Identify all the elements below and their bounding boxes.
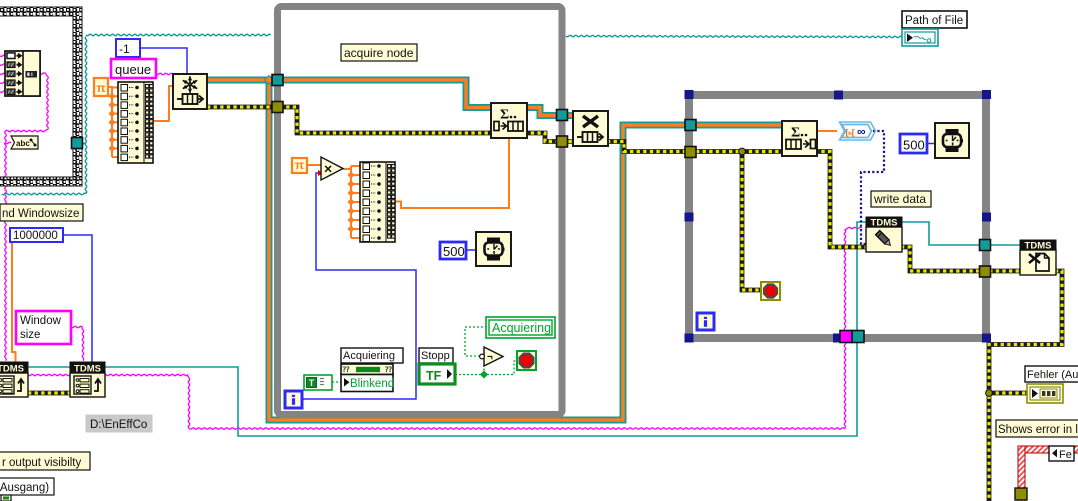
- svg-text:acquire node: acquire node: [344, 46, 414, 60]
- svg-text:Acquiering: Acquiering: [343, 350, 395, 362]
- svg-text:queue: queue: [115, 62, 151, 77]
- svg-text:1000000: 1000000: [13, 230, 58, 242]
- svg-text:-1: -1: [119, 42, 130, 56]
- svg-text:500: 500: [443, 244, 465, 259]
- svg-text:r output visibilty: r output visibilty: [2, 457, 82, 469]
- svg-text:Path of File: Path of File: [905, 15, 963, 27]
- svg-text:D:\EnEffCo: D:\EnEffCo: [90, 419, 147, 431]
- svg-text:Blinkend: Blinkend: [350, 378, 394, 390]
- svg-text:Window: Window: [20, 315, 62, 327]
- svg-text:[ₕ[: [ₕ[: [846, 127, 855, 137]
- svg-text:π: π: [96, 81, 105, 95]
- svg-text:π: π: [295, 158, 304, 172]
- svg-text:write data: write data: [873, 192, 926, 206]
- svg-text:500: 500: [903, 138, 925, 153]
- svg-text:(Ausgang): (Ausgang): [0, 482, 49, 494]
- svg-text:T: T: [309, 378, 315, 388]
- svg-text:⁇: ⁇: [385, 365, 393, 374]
- svg-text:¬: ¬: [487, 352, 493, 363]
- svg-text:Σ: Σ: [791, 126, 800, 141]
- svg-text:Acquiering: Acquiering: [492, 321, 551, 335]
- svg-text:nd Windowsize: nd Windowsize: [2, 208, 79, 220]
- svg-text:Fehler (Ausg: Fehler (Ausg: [1027, 369, 1078, 381]
- svg-text:Stopp: Stopp: [421, 350, 450, 362]
- svg-text:∞: ∞: [857, 125, 866, 139]
- svg-text:Fe: Fe: [1059, 449, 1072, 461]
- svg-text:Σ: Σ: [500, 108, 509, 123]
- svg-text:abc: abc: [16, 139, 30, 148]
- svg-text:TF: TF: [426, 369, 442, 383]
- svg-text:size: size: [20, 329, 40, 341]
- svg-text:Shows error in l: Shows error in l: [998, 424, 1078, 436]
- svg-text:×: ×: [324, 161, 332, 177]
- svg-text:⁇: ⁇: [343, 365, 351, 374]
